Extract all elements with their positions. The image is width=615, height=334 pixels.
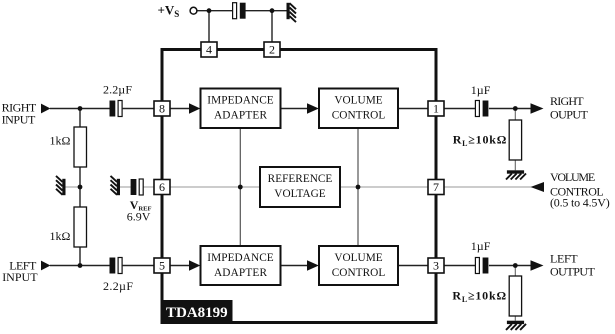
svg-text:REFERENCE: REFERENCE xyxy=(268,173,333,185)
svg-text:VOLUME: VOLUME xyxy=(550,170,595,184)
svg-text:IMPEDANCE: IMPEDANCE xyxy=(207,95,273,107)
svg-text:VOLUME: VOLUME xyxy=(334,252,382,264)
svg-text:RIGHT: RIGHT xyxy=(550,94,584,108)
svg-text:TDA8199: TDA8199 xyxy=(166,305,228,321)
svg-text:2.2µF: 2.2µF xyxy=(103,83,132,97)
svg-text:1µF: 1µF xyxy=(471,239,491,253)
svg-text:8: 8 xyxy=(159,102,165,116)
svg-text:RL≥10kΩ: RL≥10kΩ xyxy=(452,289,506,305)
svg-text:INPUT: INPUT xyxy=(2,112,36,126)
svg-text:3: 3 xyxy=(433,259,439,273)
svg-text:OUTPUT: OUTPUT xyxy=(550,264,596,278)
svg-text:1: 1 xyxy=(433,102,439,116)
svg-text:CONTROL: CONTROL xyxy=(332,267,386,279)
svg-text:2.2µF: 2.2µF xyxy=(103,279,133,293)
svg-text:ADAPTER: ADAPTER xyxy=(214,110,267,122)
svg-text:2: 2 xyxy=(269,43,275,57)
svg-text:6.9V: 6.9V xyxy=(127,209,151,223)
svg-text:1kΩ: 1kΩ xyxy=(50,229,71,243)
svg-text:7: 7 xyxy=(433,180,439,194)
svg-text:6: 6 xyxy=(159,180,165,194)
svg-text:5: 5 xyxy=(159,259,165,273)
svg-text:IMPEDANCE: IMPEDANCE xyxy=(207,252,273,264)
svg-text:1kΩ: 1kΩ xyxy=(50,133,71,147)
svg-text:ADAPTER: ADAPTER xyxy=(214,267,267,279)
svg-text:CONTROL: CONTROL xyxy=(332,110,386,122)
svg-text:1µF: 1µF xyxy=(471,83,491,97)
svg-text:4: 4 xyxy=(206,43,212,57)
svg-text:VOLTAGE: VOLTAGE xyxy=(274,188,325,200)
svg-text:RL≥10kΩ: RL≥10kΩ xyxy=(453,133,507,149)
svg-text:OUPUT: OUPUT xyxy=(550,108,588,122)
svg-text:INPUT: INPUT xyxy=(2,270,38,284)
svg-text:(0.5 to 4.5V): (0.5 to 4.5V) xyxy=(550,195,610,209)
svg-text:+VS: +VS xyxy=(158,2,180,19)
svg-text:VOLUME: VOLUME xyxy=(334,95,382,107)
